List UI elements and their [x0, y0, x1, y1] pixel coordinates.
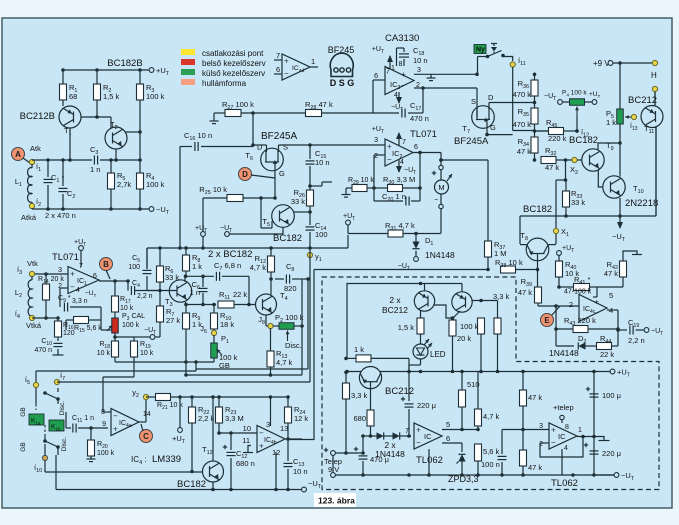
wire T9 emitter to T10 base [598, 170, 603, 187]
resistor R14 [45, 274, 47, 284]
wire IC4c output [607, 309, 618, 311]
wire R36 bottom node [534, 96, 536, 108]
resistor R5 [110, 160, 112, 173]
capacitor C5 bottom wire [146, 276, 148, 291]
svg-text:47-100 k: 47-100 k [564, 289, 592, 296]
pin 6 IC4d [274, 73, 282, 75]
wire C4 to T3 base [160, 290, 177, 292]
svg-text:−: − [259, 428, 264, 437]
terminal i12 [575, 129, 579, 133]
svg-text:7: 7 [402, 139, 406, 146]
terminal -UT T5 [225, 232, 230, 237]
resistor R11 [186, 304, 217, 306]
svg-text:+: + [113, 424, 118, 433]
resistor R16 [57, 318, 59, 321]
capacitor C1* [47, 160, 49, 177]
terminal +UT power [610, 369, 615, 374]
node B waveform [100, 258, 113, 271]
svg-text:4: 4 [400, 159, 404, 166]
wire feedback rect outer [195, 362, 197, 371]
wire IC3 pin2 feedback [414, 87, 423, 89]
wire IC2 output [413, 152, 441, 154]
transistor T10 2N2218 [603, 176, 625, 198]
switch Ny blade and contacts [486, 55, 490, 59]
terminal -UT bottom [302, 487, 307, 492]
resistor R10 [213, 305, 215, 314]
svg-text:47 k: 47 k [528, 393, 542, 402]
wire IC2 pin2 [374, 154, 385, 156]
svg-text:P4 100 k: P4 100 k [562, 90, 587, 98]
op-amp IC1 [68, 267, 99, 294]
svg-text:1N4148: 1N4148 [549, 348, 579, 358]
svg-text:Vtká: Vtká [26, 321, 42, 330]
supply arrow +UT IC2 [398, 133, 400, 146]
op-amp TL062 IC left half [414, 423, 442, 449]
svg-text:3: 3 [417, 67, 421, 74]
svg-text:100 μ: 100 μ [602, 391, 621, 400]
svg-text:H: H [651, 71, 657, 80]
svg-text:12 k: 12 k [294, 414, 308, 423]
svg-text:D: D [488, 93, 494, 102]
resistor R27 [210, 120, 219, 122]
switch K1a contact [35, 388, 37, 404]
svg-text:13: 13 [280, 424, 288, 433]
svg-text:7: 7 [79, 263, 83, 270]
svg-text:BC212: BC212 [382, 305, 408, 315]
wire T6 source row to IC2 pin3 [278, 145, 280, 152]
wire IC3 pin6 left [373, 79, 385, 81]
resistor R15 [74, 317, 89, 324]
svg-text:2,2 n: 2,2 n [628, 336, 645, 345]
svg-text:BC212: BC212 [385, 386, 414, 397]
svg-text:Disc.: Disc. [285, 341, 302, 350]
resistor 1k regulator [356, 355, 371, 362]
resistor R26 [309, 186, 311, 190]
resistor R30 [388, 185, 403, 192]
resistor R40 [557, 251, 562, 256]
svg-text:470 n: 470 n [34, 347, 52, 354]
svg-text:2,2 k: 2,2 k [198, 414, 215, 423]
transistor T3 [169, 280, 191, 302]
svg-text:47 k: 47 k [545, 163, 559, 172]
svg-text:2: 2 [374, 153, 378, 160]
dashed boundary of power section [322, 277, 659, 490]
wire T12 emitter [212, 482, 214, 490]
resistor R23 [218, 397, 220, 407]
svg-text:−: − [284, 69, 289, 78]
wire i7 long row [57, 381, 310, 383]
resistor R28 [306, 110, 322, 117]
svg-text:G: G [490, 123, 496, 132]
terminal -UT [149, 207, 154, 212]
wire bottom bus [56, 489, 302, 491]
svg-text:4,7 k: 4,7 k [276, 358, 293, 367]
svg-text:10 n: 10 n [315, 158, 330, 167]
capacitor C9* [59, 288, 61, 307]
terminal i11 [510, 62, 515, 67]
svg-text:20 k: 20 k [457, 334, 471, 343]
svg-text:220 k: 220 k [548, 134, 567, 143]
resistor 510 [461, 372, 463, 391]
op-amp IC4a [111, 409, 139, 436]
wire IC left output down [428, 449, 430, 475]
svg-text:B: B [103, 260, 109, 269]
wire T4 emitter [265, 315, 267, 326]
terminal H yellow [652, 60, 657, 65]
terminal Telep + 9V [324, 449, 328, 451]
svg-text:10: 10 [243, 424, 251, 433]
svg-text:−: − [434, 197, 438, 204]
terminal +UT T5 [201, 232, 206, 237]
wire switch to T12 base row [44, 460, 46, 472]
svg-text:470 k: 470 k [513, 120, 532, 129]
pin3 wire with i3 Vtk [34, 273, 68, 275]
wire pair emitters [434, 305, 453, 318]
supply arrow -UT T10 [619, 216, 621, 228]
svg-text:GB: GB [20, 407, 27, 416]
svg-text:100 k: 100 k [460, 322, 479, 331]
svg-text:1: 1 [578, 427, 582, 434]
transistor T2 [105, 127, 127, 149]
terminal y2 [143, 394, 148, 399]
switch Ny pushbutton [474, 45, 486, 54]
svg-text:1 n: 1 n [190, 288, 200, 297]
wire feedback to gain network [100, 320, 102, 330]
svg-text:2 x 470 n: 2 x 470 n [45, 211, 76, 220]
wire R19 to IC4a pin8 [103, 376, 134, 378]
terminal i13 [631, 114, 636, 119]
resistor R17 [114, 281, 116, 296]
svg-text:6: 6 [276, 65, 280, 74]
wire T5 collector to R26/C14 [294, 211, 310, 213]
transistor T8 [526, 238, 549, 261]
resistor R1 [62, 70, 64, 84]
wire pin10 [219, 432, 257, 434]
svg-text:Atká: Atká [21, 213, 37, 222]
resistor R45 [534, 130, 548, 132]
wire T5 emitter to -UT [282, 227, 284, 234]
wire R18 bottom loop [114, 357, 116, 362]
wire pin6 row [442, 442, 462, 444]
terminal +UT above IC1 [79, 246, 84, 251]
svg-text:BC182B: BC182B [107, 58, 142, 69]
transistor right BC212 pair [452, 292, 472, 312]
wire IC4b output [285, 438, 302, 440]
svg-text:33 k: 33 k [571, 198, 585, 207]
inductor L2 [31, 276, 33, 280]
ground right opamp [594, 437, 604, 441]
wire switch common to bottom bus [55, 455, 57, 490]
svg-text:10 n: 10 n [293, 467, 308, 476]
svg-text:3: 3 [539, 423, 543, 430]
ground on IC3 output [430, 74, 432, 78]
resistor R25 [203, 197, 227, 199]
svg-text:2,7k: 2,7k [117, 180, 131, 189]
wire T3 collector [184, 276, 186, 282]
terminal i4 [29, 315, 34, 320]
svg-text:11: 11 [242, 436, 250, 445]
svg-text:123. ábra: 123. ábra [318, 496, 355, 506]
svg-text:1 M: 1 M [494, 249, 507, 258]
resistor R37 [487, 240, 489, 241]
resistor R12 [270, 248, 272, 256]
capacitor C14 [306, 226, 315, 228]
svg-text:BC212B: BC212B [20, 111, 55, 122]
capacitor C19 [618, 329, 627, 331]
svg-text:2,2 n: 2,2 n [137, 293, 153, 300]
svg-text:−: − [551, 438, 556, 447]
wire pin2 feedback [60, 287, 68, 289]
resistor R13 [270, 328, 272, 351]
svg-text:E: E [544, 316, 550, 325]
svg-text:5: 5 [609, 291, 613, 300]
resistor R24 [287, 397, 289, 407]
svg-text:BC182: BC182 [523, 204, 552, 215]
resistor R33 [563, 191, 570, 207]
terminal i10 [42, 455, 47, 460]
pot P3 CAL red [114, 312, 116, 318]
wire right opamp feedback [540, 442, 549, 444]
capacitor C3 [93, 156, 95, 165]
wire pin5 row [442, 429, 478, 431]
pin 7 IC4d [274, 59, 282, 61]
LED [420, 334, 422, 344]
svg-text:3: 3 [266, 420, 270, 429]
svg-text:470 μ: 470 μ [370, 455, 389, 464]
wire power bottom bus [333, 474, 614, 476]
svg-text:6: 6 [446, 434, 450, 443]
svg-text:3,3 k: 3,3 k [493, 292, 510, 301]
terminal -UT D1 [414, 257, 419, 262]
capacitor C4 [126, 279, 130, 283]
op-amp IC4c [579, 295, 607, 322]
resistor 3,3k right [494, 318, 501, 334]
wire y2 bus [180, 396, 288, 398]
svg-text:47 k: 47 k [517, 147, 531, 156]
svg-text:2 x BC182: 2 x BC182 [208, 249, 252, 260]
capacitor C11 [66, 427, 71, 429]
transistor T9 [582, 149, 604, 171]
transistor T12 [203, 461, 224, 482]
svg-text:10 k: 10 k [140, 350, 154, 357]
svg-text:33 k: 33 k [291, 197, 305, 206]
svg-text:27 k: 27 k [166, 316, 180, 325]
wire T8 connections [520, 244, 527, 246]
svg-text:4,7 k: 4,7 k [250, 263, 267, 272]
svg-text:5: 5 [446, 420, 450, 429]
wire main mid bus [147, 247, 348, 249]
svg-text:D: D [257, 143, 263, 152]
wire y1 row to R38 [314, 269, 488, 271]
zener ZPD3,3 [458, 454, 465, 461]
pot P4 [558, 100, 563, 105]
svg-text:22 k: 22 k [600, 350, 614, 359]
resistor R4 [139, 132, 141, 173]
svg-text:4: 4 [76, 287, 80, 294]
resistor R21 [156, 394, 171, 401]
svg-text:4,7 k: 4,7 k [483, 412, 500, 421]
svg-text:D S G: D S G [330, 78, 355, 88]
resistor R36 [534, 74, 536, 80]
resistor R20 [90, 428, 92, 440]
svg-text:−: − [70, 282, 75, 291]
switch K1b contact [49, 420, 64, 431]
resistor 47k lower right [520, 450, 527, 466]
svg-text:Vtk: Vtk [27, 259, 38, 268]
capacitor C2 [62, 160, 64, 186]
pot P2 [273, 325, 279, 327]
svg-text:Ny: Ny [476, 47, 485, 54]
supply arrow -UT IC2 [398, 159, 400, 172]
wire C16 left down to bus [179, 147, 181, 249]
svg-text:BC182: BC182 [273, 233, 302, 244]
resistor 5,6k [475, 444, 482, 461]
wire T6 gate [274, 164, 276, 198]
terminal i7 [54, 379, 59, 384]
svg-text:1,5 k: 1,5 k [103, 92, 120, 101]
resistor R42 [620, 261, 627, 277]
svg-text:7: 7 [405, 428, 409, 435]
legend kulso kezeloszerv (green) [181, 69, 195, 75]
wire P4 wiper to i12 [576, 117, 578, 131]
pin 1 IC4d output [310, 66, 318, 68]
wire T2 collector to R3 [125, 131, 140, 133]
resistor R8 [185, 248, 187, 255]
wire pair collector to 3,3k [472, 300, 498, 302]
svg-text:120: 120 [63, 330, 75, 337]
resistor R34 [531, 137, 538, 153]
svg-text:BF245A: BF245A [454, 136, 489, 147]
capacitor 220u [408, 372, 410, 401]
wire pin11 ground [248, 446, 251, 453]
capacitor 470u [335, 452, 346, 454]
wire bus left end down to C5 [146, 248, 148, 269]
terminal i1 [29, 159, 34, 164]
svg-text:BC212: BC212 [628, 95, 657, 106]
svg-text:BF245A: BF245A [261, 131, 297, 142]
svg-text:680: 680 [353, 414, 366, 423]
resistor R18 [114, 333, 116, 341]
resistor 20k [449, 320, 456, 336]
resistor R44 [584, 345, 597, 347]
svg-text:A: A [15, 150, 21, 159]
resistor R2 [96, 70, 98, 84]
svg-text:belső kezelőszerv: belső kezelőszerv [202, 59, 266, 68]
svg-text:100 k: 100 k [97, 450, 115, 457]
svg-text:−: − [401, 81, 406, 90]
wire lower right bus [520, 215, 656, 217]
wire T9 collector up [597, 143, 599, 150]
resistor R38 [501, 266, 516, 273]
ground R42 [623, 251, 637, 261]
svg-text:18 k: 18 k [220, 320, 234, 329]
resistor 680 [370, 382, 372, 410]
svg-text:7: 7 [276, 51, 280, 60]
node E waveform [541, 314, 554, 327]
svg-text:10 n: 10 n [413, 56, 428, 65]
wire pin3 up [270, 397, 272, 426]
svg-text:820: 820 [284, 284, 297, 293]
svg-text:Disc.: Disc. [61, 437, 68, 452]
svg-text:hullámforma: hullámforma [202, 79, 247, 88]
wire T3 emitter [185, 302, 187, 305]
svg-text:47 k: 47 k [528, 463, 542, 472]
capacitor 220u right [584, 444, 588, 446]
terminal -UT C19 [644, 328, 649, 333]
wire T6 drain [251, 143, 255, 147]
wire T11 emitter to bus [655, 127, 657, 216]
wire T1 emitter down [69, 128, 71, 160]
svg-text:2 x: 2 x [389, 295, 401, 305]
wire feedback rect inner [186, 374, 302, 376]
svg-text:GB: GB [20, 442, 27, 451]
resistor R22 [191, 397, 193, 407]
svg-text:+: + [551, 426, 556, 435]
wiper arrow P5 to T11 base [625, 116, 637, 118]
svg-text:csatlakozási pont: csatlakozási pont [202, 49, 264, 58]
op-amp IC3 [385, 67, 414, 95]
resistor 47k upper right [520, 390, 527, 406]
wire output to meter [440, 153, 442, 166]
terminal +UT comparator [179, 397, 181, 428]
node A input [12, 148, 25, 161]
terminal +UT R31 [346, 220, 351, 225]
terminal J8 [268, 323, 273, 328]
svg-text:C: C [143, 432, 149, 441]
capacitor C17 [372, 80, 374, 113]
transistor left BC212 pair [414, 291, 434, 311]
transistor T5 [272, 205, 295, 228]
svg-text:68: 68 [69, 92, 77, 101]
svg-text:3,3 k: 3,3 k [351, 391, 368, 400]
meter M [439, 165, 443, 169]
switch K1b blade [45, 441, 58, 447]
wire T7 drain to R36/R35 node [488, 103, 490, 111]
svg-text:2: 2 [569, 300, 573, 309]
wire -UT row [32, 208, 149, 210]
svg-text:1: 1 [391, 65, 395, 72]
svg-text:−: − [113, 411, 118, 420]
op-amp IC4d [282, 54, 310, 80]
resistor 100k pair [478, 318, 485, 334]
wire IC4a output to y2 [139, 421, 146, 423]
capacitor C12 [230, 433, 232, 450]
svg-text:10 k: 10 k [97, 350, 111, 357]
svg-text:8: 8 [565, 424, 569, 431]
terminal X2 [572, 157, 577, 162]
svg-text:10 k: 10 k [120, 305, 134, 312]
svg-text:+: + [70, 269, 75, 278]
wire +UT top rail [63, 69, 149, 71]
wire IC1 output [99, 280, 128, 282]
svg-text:100 n: 100 n [481, 460, 500, 469]
svg-text:6: 6 [374, 73, 378, 80]
terminal yellow below H [652, 86, 657, 91]
wire output feedback to column [288, 439, 314, 441]
capacitor C15 [309, 145, 311, 159]
supply arrow +UT IC3 [389, 56, 391, 69]
svg-text:LED: LED [430, 350, 446, 359]
capacitor C20 [373, 188, 375, 201]
transistor T1 BC212B [62, 100, 64, 106]
node C waveform [140, 430, 153, 443]
wire T7 gate to i11 node [486, 122, 488, 135]
svg-text:1 k: 1 k [192, 262, 202, 271]
svg-text:+: + [401, 70, 406, 79]
svg-text:TL071: TL071 [52, 252, 79, 263]
resistor 4,7k power [475, 409, 482, 426]
svg-text:M: M [438, 183, 444, 192]
